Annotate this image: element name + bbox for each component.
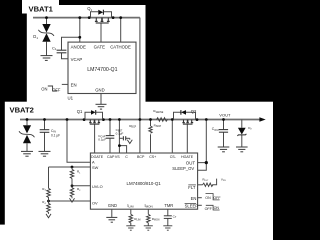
svg-text:HGATE: HGATE (181, 155, 194, 159)
svg-text:BCP: BCP (137, 155, 145, 159)
white panel: VBAT1 label box (22, 0, 59, 14)
ground (CIN) (39, 151, 51, 156)
wire: TMR stub (167, 209, 169, 216)
svg-text:UVLO: UVLO (92, 184, 103, 189)
svg-text:CATHODE: CATHODE (110, 44, 131, 49)
node: bottom rail junction dots (26, 118, 225, 202)
wire: EN pin lead (62, 83, 68, 85)
resistor R1 (SW to UVLO) (70, 167, 74, 186)
svg-text:ON: ON (214, 206, 220, 210)
svg-text:OFF: OFF (205, 207, 213, 211)
wire: SLEEP stub (198, 204, 202, 206)
TVS diode D2 (19, 125, 35, 143)
svg-text:OUT: OUT (186, 160, 196, 165)
svg-text:OFF: OFF (52, 87, 61, 92)
svg-text:U1: U1 (68, 96, 74, 101)
zener diode D3 (output clamp) (237, 126, 252, 136)
svg-text:VOUT: VOUT (219, 113, 231, 118)
svg-text:VCAP: VCAP (71, 57, 83, 62)
ground arrow (R4) (46, 214, 51, 218)
resistor RISCP (on CS+ line) (149, 126, 152, 133)
wire: D1 to ground (46, 42, 48, 56)
wire: C1 bottom lead to VCAP pin (62, 53, 69, 59)
svg-text:DGATE: DGATE (91, 155, 104, 159)
ground (D3) (236, 147, 248, 152)
wire: SLEEP_OV tie (198, 163, 207, 171)
transistor Q2 (HGATE FET) (174, 109, 198, 124)
wire: OUT riser (198, 120, 207, 163)
op-amp U2 IC box LM74800/810-Q1 (90, 153, 197, 209)
capacitor CBST (VS branch) (123, 136, 125, 140)
wire: IMON stub (147, 209, 149, 214)
resistor RFLT (203, 183, 213, 186)
resistor RLIM (129, 214, 133, 223)
wire: rail drop to OR node (139, 18, 141, 120)
wire: C1 top lead to anode line (62, 37, 80, 50)
svg-text:TMR: TMR (164, 203, 173, 208)
svg-text:0.1µF: 0.1µF (116, 131, 124, 135)
capacitor C1 (57, 50, 67, 53)
resistor R4 (OV to gnd) (47, 201, 51, 214)
wire: D1 stem (46, 18, 48, 24)
resistor RMON (147, 214, 151, 223)
wire: VS branch to CBST (119, 137, 122, 139)
svg-text:D1: D1 (33, 34, 38, 40)
svg-text:Q1: Q1 (87, 6, 92, 12)
transistor Q1 (bottom, reverse blocking FET) (77, 109, 103, 124)
wire: CS- lead (171, 120, 173, 154)
node: SLEEP OFF/ON signal (205, 205, 220, 211)
wire: VBAT1 rail (33, 17, 140, 19)
svg-text:ON: ON (205, 196, 211, 200)
svg-text:VBAT2: VBAT2 (10, 105, 34, 114)
white sliver bottom-left (0, 225, 5, 240)
white panel: top schematic panel (27, 5, 146, 104)
capacitor CIN (40, 130, 50, 133)
wire: DGATE lead (94, 124, 96, 153)
svg-text:CAP: CAP (107, 155, 115, 159)
svg-text:ANODE: ANODE (71, 44, 86, 49)
svg-text:GATE: GATE (94, 44, 106, 49)
wire: D2 to ground (26, 143, 28, 151)
node: EN ON/OFF signal (205, 194, 221, 201)
svg-text:Q2: Q2 (191, 109, 197, 114)
svg-text:LM74700-Q1: LM74700-Q1 (87, 67, 117, 73)
ground (D2) (21, 151, 33, 156)
wire: CAP cap lower lead (109, 138, 111, 153)
wire: D3 leads (241, 120, 243, 128)
ground (RLIM) (126, 226, 135, 230)
svg-text:C: C (125, 155, 128, 159)
svg-text:VS: VS (115, 155, 120, 159)
node: VOUT arrow (259, 117, 265, 122)
ground arrow (R2) (70, 198, 75, 202)
wire: CIN leads (44, 120, 46, 130)
wire: VBAT2 rail (20, 119, 260, 121)
op-amp U1 IC box LM74700-Q1 (68, 42, 136, 93)
resistor R3 (SW to OV) (47, 188, 51, 201)
node: VBAT1 junction dots (45, 16, 122, 38)
wire: CATHODE lead (120, 18, 122, 42)
svg-text:OFF: OFF (213, 196, 221, 200)
svg-text:0.1 µF: 0.1 µF (51, 134, 60, 138)
node ON/OFF enable signal (41, 86, 61, 92)
capacitor CT (164, 216, 172, 219)
capacitor COUT (219, 130, 228, 133)
ground (D1) (41, 56, 53, 61)
FET body (95, 18, 110, 23)
svg-text:0.1µF: 0.1µF (98, 138, 106, 142)
svg-text:CS-: CS- (170, 155, 177, 159)
svg-text:OV: OV (92, 200, 98, 205)
svg-text:CS+: CS+ (149, 155, 156, 159)
wire: SW divider feed (49, 166, 91, 168)
svg-text:C1: C1 (52, 45, 57, 51)
svg-text:FLT: FLT (188, 185, 196, 190)
wire: C pin tie to VS (119, 146, 126, 153)
svg-text:GND: GND (108, 203, 117, 208)
svg-text:LM74800/810-Q1: LM74800/810-Q1 (127, 181, 162, 186)
wire: EN stub (198, 197, 202, 199)
wire: D2 stem (26, 120, 28, 126)
wire: FLT pullup (198, 184, 203, 186)
svg-text:Q1: Q1 (77, 109, 83, 114)
svg-text:GND: GND (95, 88, 104, 93)
svg-text:A: A (92, 160, 95, 165)
wire: A pin tap (67, 120, 90, 163)
svg-text:ILIM: ILIM (127, 203, 134, 209)
body diode loop (91, 12, 99, 18)
wire: ANODE lead (79, 18, 81, 42)
svg-text:VBAT1: VBAT1 (29, 5, 54, 14)
pin SLEEP (185, 203, 199, 208)
wire: VS line (118, 120, 120, 154)
transistor Q1 (blocking FET, top) (87, 6, 111, 23)
svg-text:SLEEP: SLEEP (185, 203, 199, 208)
ground (U2 GND) (106, 217, 117, 222)
wire: UVLO lead (72, 185, 90, 187)
wire: CS+ lead (150, 120, 152, 127)
wire: GND stub (111, 209, 113, 217)
svg-text:SW: SW (92, 165, 99, 170)
pin FLT (188, 185, 196, 190)
ground (CT) (163, 226, 172, 230)
ground (RMON) (144, 226, 153, 230)
ground (U1 GND) (96, 104, 107, 109)
svg-text:EN: EN (71, 82, 77, 87)
wire: OV lead (49, 200, 91, 202)
wire: GND pin stem (100, 94, 102, 105)
wire: BCP lead (139, 120, 141, 154)
svg-text:EN: EN (191, 196, 197, 201)
svg-text:ON: ON (41, 86, 47, 91)
ground arrow (CBST) (127, 138, 132, 143)
wire: COUT leads (223, 120, 225, 130)
resistor RSENSE (157, 118, 168, 122)
wire: CAP cap upper lead (109, 120, 111, 136)
resistor R2 (UVLO to gnd) (70, 186, 74, 198)
wire: ILIM stub (130, 209, 132, 214)
svg-text:IMON: IMON (145, 203, 153, 209)
capacitor CCAP (on CAP line) (106, 136, 115, 139)
ground (COUT) (218, 147, 230, 152)
wire: HGATE lead (186, 124, 188, 153)
wire: left chain upper (48, 167, 50, 188)
svg-text:SLEEP_OV: SLEEP_OV (172, 166, 194, 171)
wire: GATE lead (100, 23, 102, 42)
white panel: bottom schematic panel (5, 102, 273, 240)
TVS diode D1 (33, 24, 54, 42)
